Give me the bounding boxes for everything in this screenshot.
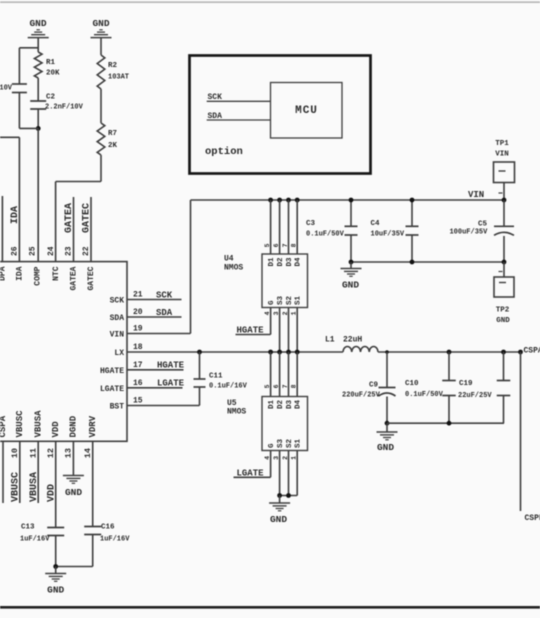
svg-text:5: 5 <box>264 243 271 247</box>
svg-text:14: 14 <box>83 448 93 458</box>
svg-text:L1: L1 <box>325 336 335 345</box>
svg-text:0.1uF/50V: 0.1uF/50V <box>405 391 444 399</box>
wire C13 to ground node <box>55 536 57 567</box>
svg-text:2.2nF/10V: 2.2nF/10V <box>45 104 84 112</box>
svg-text:SCK: SCK <box>110 297 125 306</box>
svg-text:26: 26 <box>11 246 20 256</box>
wire stem to ground under U5 <box>279 496 281 504</box>
svg-text:VIN: VIN <box>495 151 509 159</box>
ground symbol under C3 <box>341 268 362 270</box>
bottom frame line <box>0 606 540 609</box>
svg-text:BST: BST <box>110 403 125 412</box>
wire TP1 to VIN rail <box>503 183 505 201</box>
svg-text:23: 23 <box>65 246 74 256</box>
capacitor C2 <box>30 100 46 102</box>
svg-text:GND: GND <box>92 18 109 29</box>
svg-text:HGATE: HGATE <box>237 326 265 336</box>
wire C4 to lower rail <box>411 235 413 262</box>
inductor L1 <box>343 347 378 353</box>
wire C5 to lower rail <box>503 236 505 262</box>
svg-text:D4: D4 <box>295 400 303 410</box>
svg-text:7: 7 <box>282 384 289 388</box>
svg-text:HGATE: HGATE <box>100 367 124 376</box>
svg-text:C11: C11 <box>209 373 223 381</box>
svg-text:GATEC: GATEC <box>87 266 96 290</box>
svg-text:U4: U4 <box>224 255 234 264</box>
wire U5 gate to LGATE <box>270 451 272 478</box>
ground GND1 symbol <box>28 37 49 39</box>
wire HGATE stub <box>127 369 184 371</box>
svg-text:D1: D1 <box>268 400 276 410</box>
svg-text:VIN: VIN <box>468 190 484 200</box>
wire U5 source leads <box>279 451 281 496</box>
wire R2 to R7 <box>100 89 102 123</box>
wire VIN rail to C5 <box>503 200 505 226</box>
svg-text:TP1: TP1 <box>495 140 509 148</box>
svg-text:HGATE: HGATE <box>157 360 185 370</box>
capacitor C3 <box>345 225 358 227</box>
node COMP junction <box>36 126 41 131</box>
svg-text:VDRV: VDRV <box>88 415 98 437</box>
wire C9 to lower rail <box>386 397 388 424</box>
capacitor C? 10V (cut at edge) <box>12 83 27 85</box>
transistor U4 box <box>262 254 308 308</box>
capacitor C13 <box>47 527 64 529</box>
wire input cap lower rail <box>351 261 504 263</box>
node C9 junction <box>385 421 390 426</box>
op-amp controller IC box <box>0 262 127 442</box>
svg-text:6: 6 <box>273 384 280 388</box>
wire U5 source rail <box>280 495 298 497</box>
svg-text:DPA: DPA <box>0 266 8 281</box>
svg-text:NMOS: NMOS <box>224 264 243 273</box>
svg-text:100uF/35V: 100uF/35V <box>449 228 488 236</box>
wire R7 to NTC pin <box>100 155 102 182</box>
wire DGND stem <box>72 441 74 475</box>
svg-text:16: 16 <box>133 379 143 388</box>
svg-text:27: 27 <box>0 246 3 256</box>
capacitor C9 (polarized) <box>379 387 396 389</box>
svg-text:10uF/35V: 10uF/35V <box>371 231 405 239</box>
svg-text:CSPA: CSPA <box>0 415 8 437</box>
wire SDA stub <box>127 316 182 318</box>
svg-text:R1: R1 <box>46 59 56 67</box>
node lower rail junctions <box>349 260 354 265</box>
svg-text:C19: C19 <box>459 380 473 388</box>
svg-text:25: 25 <box>29 246 38 256</box>
wire C9 lead <box>386 352 388 388</box>
svg-text:MCU: MCU <box>295 105 318 117</box>
wire VBUSC stub <box>19 441 21 503</box>
svg-text:LGATE: LGATE <box>237 468 265 478</box>
svg-text:24: 24 <box>47 246 56 256</box>
svg-text:SCK: SCK <box>156 291 173 301</box>
svg-text:GATEC: GATEC <box>82 203 93 233</box>
wire ground stem under C3 <box>350 262 352 269</box>
wire C11 to BST <box>199 387 201 406</box>
svg-text:CSPA: CSPA <box>524 347 540 356</box>
ground symbol under U5 <box>269 502 290 504</box>
wire U4 source leads to LX <box>279 308 281 353</box>
node C10 junction <box>447 421 452 426</box>
svg-text:0.1uF/16V: 0.1uF/16V <box>209 383 248 391</box>
transistor U5 box <box>262 397 308 451</box>
svg-text:20K: 20K <box>46 70 60 78</box>
svg-text:D4: D4 <box>295 257 303 267</box>
svg-text:LGATE: LGATE <box>100 385 124 394</box>
svg-text:6: 6 <box>273 243 280 247</box>
wire left cap top lead <box>18 48 20 84</box>
node output rail junctions <box>447 350 452 355</box>
wire LX to C11 <box>199 352 201 379</box>
svg-text:DGND: DGND <box>69 415 79 437</box>
wire C19 to lower rail <box>503 396 505 424</box>
svg-text:SDA: SDA <box>156 308 173 318</box>
svg-text:S2: S2 <box>286 438 294 448</box>
wire C19 lead <box>503 352 505 381</box>
wire C2 to node <box>37 109 39 128</box>
wire SCK to MCU <box>207 100 271 102</box>
resistor R7 <box>97 123 105 155</box>
svg-text:GND: GND <box>29 18 46 29</box>
svg-text:22uH: 22uH <box>343 336 362 345</box>
wire left cap to node <box>18 93 20 129</box>
svg-text:COMP: COMP <box>34 266 43 285</box>
wire output cap lower rail <box>387 422 504 424</box>
svg-text:C5: C5 <box>478 220 488 228</box>
wire C10 lead <box>448 352 450 381</box>
svg-text:VBUSA: VBUSA <box>33 410 43 438</box>
svg-text:C16: C16 <box>101 524 115 532</box>
svg-text:GND: GND <box>342 280 359 291</box>
wire IDA from left edge <box>0 136 19 138</box>
wire LX rail <box>127 351 343 353</box>
svg-text:S1: S1 <box>295 295 303 305</box>
svg-text:VBUSC: VBUSC <box>15 410 25 438</box>
svg-text:D1: D1 <box>268 257 276 267</box>
node U5 source junctions <box>277 493 282 498</box>
top frame line <box>0 1 540 3</box>
svg-text:IDA: IDA <box>16 266 25 281</box>
wire VIN rail <box>191 199 505 201</box>
svg-text:GND: GND <box>377 442 394 453</box>
svg-text:S2: S2 <box>286 295 294 305</box>
wire CSPA stub <box>2 441 4 503</box>
svg-text:C10: C10 <box>405 380 419 388</box>
svg-text:GATEA: GATEA <box>64 203 75 233</box>
wire SCK stub <box>127 299 182 301</box>
wire SDA to MCU <box>207 119 271 121</box>
svg-text:10: 10 <box>10 448 20 458</box>
svg-text:VBUSC: VBUSC <box>10 472 21 502</box>
test point TP2 box <box>494 277 514 297</box>
node C9 rail junction <box>385 350 389 354</box>
svg-text:13: 13 <box>64 448 74 458</box>
wire U5 drain leads <box>270 352 272 397</box>
capacitor C3 lead <box>350 200 352 226</box>
capacitor C4 lead <box>411 200 413 226</box>
svg-text:0.1uF/50V: 0.1uF/50V <box>306 231 345 239</box>
wire VIN pin to rail <box>127 333 191 335</box>
wire GND1 stem <box>37 38 39 52</box>
svg-text:VBUSA: VBUSA <box>29 472 40 502</box>
svg-text:GATEA: GATEA <box>70 266 79 290</box>
wire U4 drain leads <box>270 200 272 254</box>
svg-text:SDA: SDA <box>110 314 125 323</box>
svg-text:C2: C2 <box>46 94 56 102</box>
svg-text:G: G <box>268 443 276 448</box>
capacitor C16 <box>84 526 101 528</box>
capacitor C5 (polarized) <box>494 225 514 227</box>
wire GND2 stem <box>100 38 102 55</box>
node LX-C11 junction <box>197 350 202 355</box>
wire VDD down <box>55 441 57 527</box>
wire U4 gate to HGATE <box>270 308 272 335</box>
svg-text:15: 15 <box>133 397 143 406</box>
svg-text:22: 22 <box>82 246 91 256</box>
resistor R1 <box>34 52 42 78</box>
svg-text:G: G <box>268 300 276 305</box>
wire CSPA down right edge <box>520 352 522 511</box>
wire BST stub <box>127 405 200 407</box>
svg-text:8: 8 <box>291 384 298 388</box>
svg-text:103AT: 103AT <box>108 74 129 82</box>
svg-text:NTC: NTC <box>52 266 61 281</box>
node LX junctions under U4 <box>268 350 273 355</box>
svg-text:1uF/16V: 1uF/16V <box>100 536 130 544</box>
svg-text:18: 18 <box>133 343 143 352</box>
svg-text:LX: LX <box>114 349 124 358</box>
svg-text:S3: S3 <box>277 438 285 448</box>
capacitor C10 <box>442 380 456 382</box>
capacitor C4 <box>406 225 419 227</box>
node C13/C16 junction <box>53 564 58 569</box>
svg-text:D3: D3 <box>286 257 294 267</box>
wire C10 to lower rail <box>448 396 450 424</box>
MCU option outer box <box>190 56 371 174</box>
test point TP1 box <box>494 162 515 183</box>
wire stem to ground <box>55 567 57 574</box>
svg-text:VDD: VDD <box>51 421 61 438</box>
svg-text:S3: S3 <box>277 295 285 305</box>
node TP1 junction <box>502 198 507 203</box>
svg-text:11: 11 <box>28 448 38 458</box>
svg-text:D2: D2 <box>277 257 285 267</box>
svg-text:7: 7 <box>282 243 289 247</box>
svg-text:TP2: TP2 <box>496 307 510 315</box>
ground DGND symbol <box>63 475 84 477</box>
svg-text:21: 21 <box>133 291 143 300</box>
wire GATEC stub <box>90 197 92 262</box>
svg-text:20: 20 <box>133 308 143 317</box>
resistor R2 <box>97 55 105 89</box>
svg-text:GND: GND <box>496 317 510 325</box>
wire output rail <box>378 351 521 353</box>
svg-text:D2: D2 <box>277 400 285 410</box>
svg-text:8: 8 <box>291 243 298 247</box>
ground symbol under C9 <box>386 423 388 432</box>
svg-text:GND: GND <box>270 514 287 525</box>
node U4 drain junctions <box>268 198 273 203</box>
svg-text:D3: D3 <box>286 400 294 410</box>
wire LGATE stub <box>127 387 183 389</box>
svg-text:CSPB: CSPB <box>525 514 540 523</box>
svg-text:5: 5 <box>264 384 271 388</box>
svg-text:NMOS: NMOS <box>227 408 246 417</box>
svg-text:LGATE: LGATE <box>157 378 185 388</box>
capacitor C19 <box>497 380 511 382</box>
svg-text:12: 12 <box>46 448 56 458</box>
wire branch to left capacitor <box>19 47 38 49</box>
wire VBUSA stub <box>37 441 39 503</box>
svg-text:VDD: VDD <box>46 484 57 502</box>
wire TP2 stem <box>503 262 505 277</box>
wire C3 to lower rail <box>350 235 352 262</box>
wire IDA down to pin <box>18 137 20 261</box>
svg-text:R2: R2 <box>108 62 118 70</box>
svg-text:10V: 10V <box>0 85 13 93</box>
svg-text:IDA: IDA <box>10 206 21 224</box>
svg-text:S1: S1 <box>295 438 303 448</box>
svg-text:GND: GND <box>47 585 64 596</box>
svg-text:VIN: VIN <box>110 331 125 340</box>
svg-text:220uF/25V: 220uF/25V <box>342 392 381 400</box>
svg-text:C4: C4 <box>371 220 381 228</box>
wire DPA stub <box>1 196 3 262</box>
svg-text:C9: C9 <box>369 382 379 390</box>
svg-text:2K: 2K <box>108 142 118 150</box>
svg-text:C13: C13 <box>21 524 35 532</box>
wire node to COMP pin <box>37 128 39 261</box>
svg-text:22uF/25V: 22uF/25V <box>458 392 492 400</box>
wire C16 to ground node <box>92 535 94 567</box>
ground GND2 symbol <box>91 37 112 39</box>
svg-text:GND: GND <box>65 487 82 498</box>
svg-text:17: 17 <box>133 361 143 370</box>
svg-text:C3: C3 <box>306 220 316 228</box>
svg-text:R7: R7 <box>108 130 117 138</box>
wire VDRV down <box>92 441 94 526</box>
ground symbol below C13 <box>45 573 66 575</box>
capacitor C11 <box>194 378 206 380</box>
svg-text:19: 19 <box>133 325 143 334</box>
MCU inner box <box>271 83 343 139</box>
svg-text:option: option <box>205 146 243 158</box>
wire R1 to C2 <box>37 78 39 101</box>
svg-text:1uF/16V: 1uF/16V <box>20 536 50 544</box>
wire GATEA stub <box>73 197 75 262</box>
